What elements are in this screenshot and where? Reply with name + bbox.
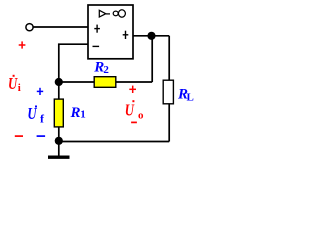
svg-text:1: 1 [80,109,86,121]
svg-text:U: U [8,74,18,93]
svg-text:L: L [187,92,194,104]
svg-text:i: i [18,82,21,94]
svg-text:2: 2 [103,64,109,76]
svg-text:o: o [138,110,144,122]
svg-text:U: U [125,101,135,120]
svg-text:R: R [70,105,81,121]
